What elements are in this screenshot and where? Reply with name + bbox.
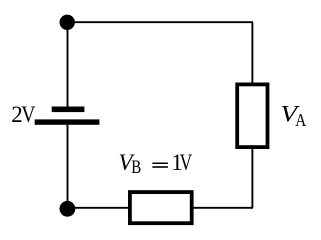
wire bottom right (corner to resistor VB pin 2) xyxy=(191,207,253,209)
wire right upper (corner down to resistor VA pin 1) xyxy=(251,22,253,84)
resistor VA (box) xyxy=(237,84,267,147)
svg-text:B: B xyxy=(131,157,141,178)
svg-text:A: A xyxy=(295,110,306,130)
wire top (node A to right corner) xyxy=(67,21,253,23)
svg-text:V: V xyxy=(180,150,193,175)
node A (junction dot, top left) xyxy=(59,15,74,30)
wire left lower (battery negative plate down to node B) xyxy=(67,125,69,208)
wire bottom left (resistor VB pin 1 to node B) xyxy=(67,207,130,209)
wire right lower (resistor VA pin 2 down to bottom corner) xyxy=(251,147,253,208)
battery 2V positive plate (short thick bar) xyxy=(52,107,85,113)
svg-text:V: V xyxy=(21,102,36,127)
battery 2V negative plate (long thick bar) xyxy=(35,119,100,124)
wire left upper (node A down to battery positive plate) xyxy=(67,22,69,106)
equals sign (bottom bar) xyxy=(152,166,168,168)
node B (junction dot, bottom left) xyxy=(60,201,76,217)
resistor VB (box) xyxy=(130,192,192,223)
equals sign (top bar) xyxy=(152,163,168,165)
